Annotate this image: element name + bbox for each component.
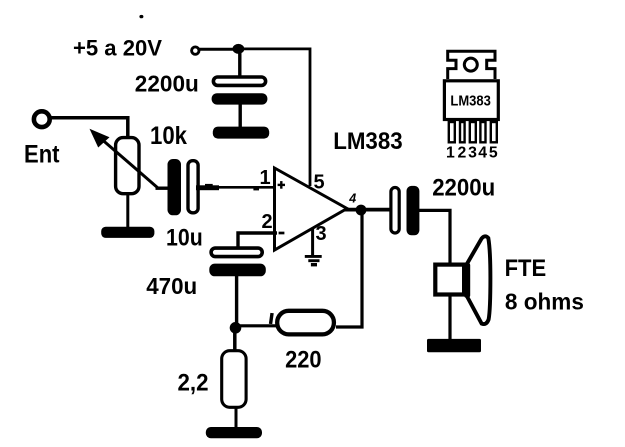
svg-text:8 ohms: 8 ohms bbox=[505, 288, 584, 314]
resistor R2 2,2 bbox=[222, 351, 246, 408]
svg-text:2200u: 2200u bbox=[432, 174, 495, 201]
svg-text:10k: 10k bbox=[150, 122, 187, 150]
wire pot to ground bbox=[126, 194, 129, 229]
ground (pot) bbox=[101, 227, 154, 238]
svg-text:LM383: LM383 bbox=[450, 93, 491, 110]
svg-text:5: 5 bbox=[314, 172, 325, 194]
wire node A to R1 bbox=[236, 324, 278, 327]
capacitor C2 plate + bbox=[188, 161, 198, 213]
wire junction to pin 5 bbox=[239, 49, 310, 186]
wire input to potentiometer bbox=[50, 118, 128, 138]
capacitor C3 plate - bbox=[209, 264, 265, 277]
IC package mounting hole bbox=[464, 58, 477, 71]
svg-text:LM383: LM383 bbox=[333, 128, 403, 155]
wire C3 to node A bbox=[235, 276, 238, 328]
wire supply terminal to junction bbox=[199, 48, 239, 51]
wire R2 to ground bbox=[235, 408, 238, 429]
capacitor C4 plate + bbox=[391, 188, 399, 234]
IC package leg 2 bbox=[460, 122, 465, 142]
svg-text:10u: 10u bbox=[166, 224, 203, 251]
output node junction bbox=[356, 205, 367, 216]
svg-text:4: 4 bbox=[478, 144, 487, 161]
svg-text:2: 2 bbox=[262, 211, 273, 233]
wire C1 to ground bbox=[238, 104, 241, 128]
wire speaker to ground bbox=[448, 296, 451, 341]
svg-text:FTE: FTE bbox=[505, 255, 547, 282]
svg-text:4: 4 bbox=[348, 191, 356, 205]
input terminal Ent bbox=[34, 111, 50, 127]
speaker coil box bbox=[435, 265, 464, 295]
ground (C1) bbox=[213, 127, 269, 139]
IC package leg 4 bbox=[480, 122, 485, 142]
svg-text:Ent: Ent bbox=[24, 141, 60, 169]
svg-text:5: 5 bbox=[489, 144, 498, 161]
ground (pin 3) bbox=[305, 255, 322, 258]
IC package leg 5 bbox=[491, 122, 497, 142]
svg-text:470u: 470u bbox=[146, 273, 197, 299]
ground (speaker) bbox=[427, 339, 481, 352]
wire junction to C1 bbox=[238, 49, 241, 77]
node A junction bbox=[230, 322, 242, 334]
potentiometer arrow bbox=[101, 138, 158, 187]
svg-text:3: 3 bbox=[316, 223, 327, 245]
wire wiper to C2 bbox=[156, 186, 170, 189]
svg-text:3: 3 bbox=[468, 144, 477, 161]
IC package body bbox=[444, 81, 498, 120]
wire R1 to output node bbox=[336, 212, 362, 327]
svg-text:2200u: 2200u bbox=[135, 71, 199, 97]
speaker cone bbox=[466, 236, 490, 324]
IC package leg 1 bbox=[449, 122, 455, 142]
capacitor C1 2200u plate + bbox=[213, 77, 265, 85]
wire C2 to pin 1 bbox=[200, 186, 275, 189]
ground (R2) bbox=[206, 427, 262, 438]
pin 3 wire bbox=[311, 228, 314, 255]
capacitor C3 470u plate + bbox=[211, 248, 262, 257]
op-amp U1 bbox=[275, 168, 348, 250]
supply terminal bbox=[192, 47, 199, 54]
svg-text:2: 2 bbox=[458, 144, 467, 161]
svg-text:220: 220 bbox=[285, 347, 322, 374]
svg-text:1: 1 bbox=[260, 167, 271, 189]
svg-text:2,2: 2,2 bbox=[178, 370, 209, 397]
capacitor C2 10u plate - bbox=[168, 159, 182, 215]
potentiometer P1 body bbox=[116, 138, 139, 194]
wire C4 to speaker bbox=[419, 210, 451, 265]
IC package LM383 tab bbox=[448, 51, 495, 79]
wire node A to R2 bbox=[233, 328, 237, 352]
pin 2 wire bbox=[238, 233, 277, 247]
capacitor C1 plate - bbox=[212, 93, 268, 104]
junction supply node bbox=[233, 44, 245, 54]
svg-text:+5 a 20V: +5 a 20V bbox=[73, 36, 162, 61]
resistor R1 220 bbox=[277, 311, 334, 335]
IC package leg 3 bbox=[470, 122, 476, 142]
svg-text:1: 1 bbox=[446, 144, 455, 161]
wire pin 4 to C4 bbox=[345, 208, 392, 212]
capacitor C4 plate - bbox=[407, 186, 420, 235]
